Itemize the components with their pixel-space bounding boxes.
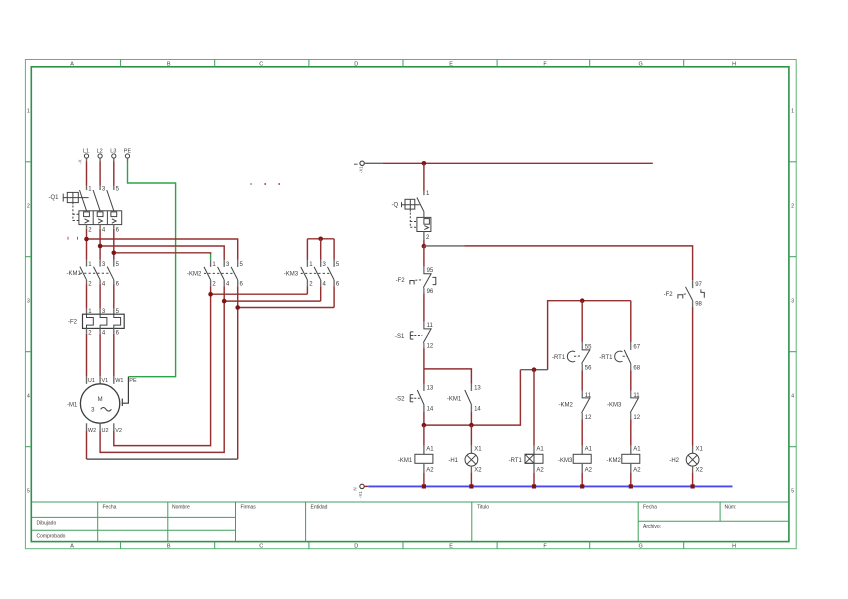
wire stub green at KM2 pole1 — [210, 254, 212, 260]
pin 14 — [423, 405, 425, 412]
frame column letters bottom — [70, 544, 736, 550]
timer semicircle — [567, 351, 575, 362]
svg-text:H: H — [732, 544, 736, 550]
Q1 thermal elements — [84, 212, 117, 217]
KM1 pins 2,4,6 — [87, 280, 114, 284]
wire RT1 coil drop — [533, 370, 535, 446]
wire junction to F2 97 (gray lead) — [424, 245, 465, 247]
blade — [686, 287, 693, 301]
svg-text:A1: A1 — [426, 447, 434, 453]
pin 13 — [470, 384, 472, 391]
start button S2 — [395, 384, 434, 412]
svg-text:A: A — [70, 61, 74, 67]
thermal overload relay F2 — [68, 309, 124, 337]
junction dot below Q — [422, 244, 427, 249]
pin 14 — [470, 405, 472, 412]
pin 55 — [582, 342, 589, 350]
svg-text:-RT1: -RT1 — [509, 458, 523, 464]
svg-text:-RT1: -RT1 — [552, 355, 566, 361]
svg-text:13: 13 — [474, 386, 481, 392]
Q pin 1 — [423, 191, 425, 196]
motor M1 — [67, 384, 120, 423]
blade — [582, 349, 591, 363]
svg-text:-KM3: -KM3 — [284, 271, 299, 277]
Q1 pins 1,3,5 — [87, 186, 114, 191]
svg-text:A1: A1 — [536, 447, 544, 453]
svg-text:L1: L1 — [83, 149, 89, 155]
thermal symbol — [678, 295, 683, 299]
svg-text:A2: A2 — [585, 467, 593, 473]
contactor KM3 (star) — [284, 237, 340, 288]
svg-text:-KM3: -KM3 — [558, 458, 573, 464]
lamp H1 — [448, 425, 482, 486]
svg-text:D: D — [354, 61, 358, 67]
svg-text:X1: X1 — [696, 447, 704, 453]
svg-text:2: 2 — [791, 203, 794, 209]
svg-text:L2: L2 — [97, 149, 103, 155]
svg-text:-KM1: -KM1 — [398, 458, 413, 464]
timer relay coil RT1 — [509, 446, 545, 487]
svg-text:5: 5 — [27, 488, 30, 494]
svg-text:12: 12 — [633, 415, 640, 421]
terminal strip -X (L1 L2 L3 PE) — [78, 154, 130, 164]
wire Q to junction — [423, 239, 425, 246]
wire KM1 to F2 pole3 — [113, 284, 115, 309]
Q1 magnetic elements — [85, 219, 117, 223]
svg-text:-X1: -X1 — [359, 166, 364, 174]
svg-text:55: 55 — [585, 345, 592, 351]
trip hook — [432, 277, 435, 284]
svg-text:-X1: -X1 — [358, 491, 363, 499]
Q trip unit box — [417, 217, 431, 231]
thermal symbol — [410, 281, 414, 285]
svg-text:1: 1 — [791, 109, 794, 115]
KM1 blades — [80, 267, 114, 280]
svg-text:3: 3 — [27, 298, 30, 304]
svg-text:11: 11 — [585, 393, 592, 399]
wire motor U2 to KM2 pole3 bottom — [100, 301, 224, 452]
thermal contact F2 95-96 — [396, 267, 436, 295]
wire KM2 pole3 stub — [223, 286, 225, 301]
KM3 blades — [301, 267, 334, 280]
wire KM2 pole5 bottom vertical — [237, 308, 239, 460]
svg-text:C: C — [259, 61, 263, 67]
svg-text:-Q: -Q — [392, 202, 399, 208]
motor terminal pins top — [87, 376, 114, 383]
svg-text:1: 1 — [27, 109, 30, 115]
KM2 linkage (dashed) — [204, 272, 235, 274]
KM1 linkage (dashed) — [80, 272, 111, 274]
coil KM1 — [398, 425, 434, 486]
wire KM3 12 to KM2 coil — [630, 419, 632, 446]
coil KM2 — [607, 446, 642, 487]
svg-text:G: G — [639, 544, 643, 550]
contactor KM1 — [67, 260, 120, 288]
Q pin 2 — [423, 232, 425, 240]
wire RT1 56 to KM2 11 — [581, 371, 583, 391]
junction dot KM2 pole3 — [222, 299, 227, 304]
wire phase branch to KM2 pole1 — [114, 253, 211, 254]
junction dot KM2 pole5 — [235, 305, 240, 310]
wire F2 96 to S1 — [423, 293, 425, 321]
terminal -X neutral — [353, 484, 365, 498]
svg-text:H: H — [732, 61, 736, 67]
svg-text:12: 12 — [427, 343, 434, 349]
svg-text:Archivo:: Archivo: — [643, 524, 661, 530]
svg-text:B: B — [167, 61, 171, 67]
pin 95 — [424, 267, 431, 274]
svg-text:A: A — [70, 544, 74, 550]
svg-text:U1: U1 — [88, 378, 95, 384]
KM3 star bar drops — [306, 239, 308, 260]
svg-text:E: E — [449, 544, 453, 550]
svg-text:Comprobado: Comprobado — [37, 534, 66, 540]
wire S2 to junction row — [423, 411, 425, 425]
wire L2 to Q1 — [99, 162, 101, 186]
thermal contact F2 97-98 — [664, 280, 705, 307]
KM3 pins 1,3,5 — [307, 260, 334, 267]
svg-text:V1: V1 — [102, 378, 109, 384]
junction dot KM2 pole1 — [208, 292, 213, 297]
svg-text:12: 12 — [585, 415, 592, 421]
F2 heater elements — [87, 314, 121, 328]
motor breaker Q1 — [48, 186, 121, 234]
svg-text:-S2: -S2 — [395, 396, 405, 402]
wire drop to RT1 55 — [581, 301, 583, 342]
svg-text:-F2: -F2 — [396, 278, 406, 284]
svg-text:95: 95 — [427, 268, 434, 274]
pin 12 — [581, 413, 583, 419]
wire F2 98 to H2 — [692, 307, 694, 446]
wire motor W2 run (black) — [87, 458, 238, 460]
svg-text:-KM1: -KM1 — [447, 396, 462, 402]
wire KM2 12 to KM3 coil — [581, 419, 583, 446]
svg-text:Dibujado: Dibujado — [37, 521, 57, 527]
wire motor V2 to KM2 pole1 bottom — [114, 294, 211, 445]
svg-text:E: E — [449, 61, 453, 67]
timed contact RT1 55-56 — [552, 342, 592, 372]
svg-text:M: M — [98, 397, 103, 403]
svg-text:-H2: -H2 — [669, 458, 679, 464]
wire control top rail — [383, 162, 653, 164]
wire riser to upper rail — [548, 301, 631, 370]
svg-text:Entidad: Entidad — [311, 505, 328, 511]
wire PE (green) to motor — [128, 162, 176, 377]
svg-text:Fecha: Fecha — [643, 505, 657, 511]
svg-text:67: 67 — [633, 345, 640, 351]
svg-text:PE: PE — [124, 149, 132, 155]
wire Q1 pole3 down to KM1 — [113, 229, 115, 260]
svg-text:-KM2: -KM2 — [558, 403, 573, 409]
wire KM3 pole3 stub down — [320, 286, 322, 301]
wire KM2-KM3 link row2 — [224, 300, 321, 302]
neutral connection squares — [422, 484, 695, 488]
wire F2 to motor V1 — [99, 334, 101, 377]
breaker Q (control) — [392, 191, 431, 241]
svg-text:98: 98 — [695, 302, 702, 308]
junction dot RT1 feed — [532, 367, 537, 372]
svg-text:-S1: -S1 — [395, 334, 405, 340]
blade — [423, 273, 431, 288]
Q magnetic element — [424, 226, 428, 230]
wire gray link to RT1 riser — [520, 369, 547, 371]
wire F2 to motor W1 — [113, 334, 115, 377]
Q thermal element — [424, 219, 430, 225]
svg-text:-KM3: -KM3 — [607, 403, 622, 409]
Q1 blades — [80, 190, 114, 211]
svg-text:Titulo: Titulo — [477, 505, 489, 511]
KM2 pins 2,4,6 — [211, 280, 238, 286]
svg-text:-KM1: -KM1 — [67, 271, 82, 277]
blade — [417, 390, 424, 405]
timed contact RT1 67-68 — [599, 342, 640, 372]
F2 box — [83, 314, 125, 328]
wire L3 to Q1 — [113, 162, 115, 186]
pin 56 — [581, 364, 583, 371]
frame column ticks top — [121, 60, 684, 67]
KM2 blades — [204, 267, 238, 280]
svg-text:X2: X2 — [474, 467, 482, 473]
svg-text:X2: X2 — [696, 467, 704, 473]
frame column letters top — [70, 61, 736, 67]
svg-text:Fecha: Fecha — [103, 505, 117, 511]
wire KM2 pole5 stub — [237, 286, 239, 307]
pin 11 — [631, 391, 638, 398]
terminal -X control phase — [354, 161, 364, 173]
junction dot phase L1 — [84, 237, 89, 242]
KM3 star bar — [307, 238, 334, 240]
title block labels — [37, 505, 737, 540]
svg-text:N: N — [353, 487, 358, 490]
svg-text:Firmas: Firmas — [241, 505, 257, 511]
frame row ticks left — [25, 162, 31, 447]
frame row numbers left — [27, 109, 30, 495]
wire KM1 to F2 pole2 — [99, 284, 101, 309]
junction dot phase L3 — [112, 251, 117, 256]
stop button S1 — [395, 321, 434, 349]
svg-text:-KM2: -KM2 — [607, 458, 622, 464]
svg-text:G: G — [639, 61, 643, 67]
wire KM2-KM3 link row3 — [238, 307, 334, 309]
motor terminal labels W2 U2 V2 — [88, 428, 122, 434]
svg-text:-F2: -F2 — [68, 319, 78, 325]
pin 12 — [630, 413, 632, 419]
wire phase branch to KM2 pole5 — [87, 239, 238, 260]
pin 13 — [423, 384, 425, 391]
blade — [582, 397, 591, 413]
blade — [630, 397, 639, 413]
title block grid — [31, 502, 789, 542]
contactor KM2 — [187, 260, 244, 288]
svg-text:-Q1: -Q1 — [48, 195, 59, 201]
wire control top rail (gray lead) — [364, 162, 382, 164]
svg-text:56: 56 — [585, 366, 592, 372]
svg-text:U2: U2 — [102, 428, 109, 434]
drawing frame outer border — [25, 60, 796, 549]
trip hook — [701, 289, 704, 297]
pin 67 — [630, 342, 632, 350]
wire rail to Q — [423, 163, 425, 190]
frame row ticks right — [789, 162, 796, 447]
wire KM2 pole1 stub — [210, 286, 212, 294]
wire neutral rail (blue) — [368, 485, 732, 487]
svg-text:A2: A2 — [536, 467, 544, 473]
junction dot KM1 aux bottom — [469, 423, 474, 428]
svg-text:A1: A1 — [585, 447, 593, 453]
stray mark group — [68, 183, 280, 240]
pin 11 — [582, 391, 589, 398]
junction dot top rail — [422, 161, 427, 166]
svg-text:Núm:: Núm: — [725, 505, 737, 511]
KM3 star junction dot — [318, 237, 323, 242]
Q blade — [417, 198, 424, 212]
wire phase branch to KM2 pole3 — [100, 246, 224, 260]
blade — [465, 390, 472, 405]
wire neutral stub — [364, 485, 368, 487]
svg-text:V2: V2 — [115, 428, 122, 434]
wire motor W2 vertical — [86, 431, 88, 460]
svg-text:D: D — [354, 544, 358, 550]
pin 98 — [692, 300, 694, 307]
push actuator — [410, 395, 413, 402]
pin 96 — [423, 288, 425, 294]
Q manual actuator — [401, 199, 420, 211]
blade — [624, 350, 631, 364]
frame column ticks bottom — [121, 542, 684, 549]
svg-text:14: 14 — [474, 406, 481, 412]
svg-text:97: 97 — [695, 282, 702, 288]
frame row numbers right — [791, 109, 794, 495]
pin 97 — [692, 280, 694, 288]
terminal pins — [87, 158, 128, 161]
coil KM3 — [558, 446, 593, 487]
svg-text:PE: PE — [129, 378, 137, 384]
svg-text:C: C — [259, 544, 263, 550]
wire KM2-KM3 link row1 — [211, 293, 308, 295]
wire junction to F2 97 (red) — [465, 246, 693, 280]
motor terminal pins bottom — [87, 423, 114, 430]
svg-text:4: 4 — [791, 393, 794, 399]
Q1 manual actuator — [63, 192, 88, 204]
interlock contact KM3 11-12 — [607, 391, 641, 421]
svg-text:96: 96 — [427, 289, 434, 295]
Q mechanical link (dashed) — [410, 213, 417, 228]
wire drop to RT1 67 — [630, 301, 632, 342]
svg-text:-KM2: -KM2 — [187, 271, 202, 277]
pin 68 — [630, 364, 632, 371]
svg-text:68: 68 — [633, 366, 640, 372]
wire L1 to Q1 — [86, 162, 88, 186]
svg-text:L3: L3 — [110, 149, 116, 155]
svg-text:Nombre: Nombre — [172, 505, 190, 511]
junction dot upper rail — [580, 298, 585, 303]
wire KM1 to F2 pole1 — [86, 284, 88, 309]
interlock contact KM2 11-12 — [558, 391, 592, 421]
motor PE terminal mark — [121, 399, 123, 407]
KM3 linkage (dashed) — [301, 272, 331, 274]
wire KM3 pole5 stub down — [333, 286, 335, 307]
pin 11 — [424, 321, 431, 329]
svg-text:W2: W2 — [88, 428, 96, 434]
wire KM3 pole1 stub down — [306, 286, 308, 294]
Q1 trip unit box — [79, 211, 122, 225]
junction dot phase L2 — [98, 244, 103, 249]
junction dot S2 bottom — [422, 423, 427, 428]
drawing frame inner border — [31, 67, 789, 542]
push actuator — [410, 332, 413, 339]
svg-text:14: 14 — [427, 406, 434, 412]
svg-text:3: 3 — [791, 298, 794, 304]
motor terminal labels U1 V1 W1 PE — [88, 378, 137, 384]
pin 12 — [423, 343, 425, 348]
wire RT1 68 to KM3 11 — [630, 371, 632, 391]
lamp H2 — [669, 446, 703, 487]
timer semicircle — [615, 351, 623, 362]
svg-text:4: 4 — [27, 393, 30, 399]
svg-text:-F2: -F2 — [664, 292, 674, 298]
auxiliary contact KM1 13-14 — [447, 384, 482, 412]
wire Q1 pole2 down to KM1 — [99, 229, 101, 260]
Q1 mechanical link (dashed) — [73, 206, 79, 222]
svg-text:2: 2 — [27, 203, 30, 209]
KM3 pins 2,4,6 — [307, 280, 334, 286]
svg-text:13: 13 — [427, 386, 434, 392]
svg-text:X1: X1 — [474, 447, 482, 453]
svg-text:-M1: -M1 — [67, 402, 78, 408]
svg-text:A2: A2 — [633, 467, 641, 473]
svg-text:-RT1: -RT1 — [599, 355, 613, 361]
F2 pins 1,3,5 — [87, 309, 114, 315]
svg-text:A1: A1 — [633, 447, 641, 453]
svg-text:11: 11 — [427, 323, 434, 329]
wire S1 to S2 — [423, 348, 425, 384]
motor PE lead (black) — [123, 377, 129, 404]
wire branch to KM1 aux — [424, 369, 472, 384]
wire Q1 pole1 down to KM1 — [86, 229, 88, 260]
Q1 pins 2,4,6 — [87, 225, 114, 229]
wire junction row — [424, 370, 521, 425]
svg-text:-H1: -H1 — [448, 458, 458, 464]
KM2 pins 1,3,5 — [211, 260, 238, 267]
blade — [423, 328, 431, 343]
svg-text:B: B — [167, 544, 171, 550]
svg-text:11: 11 — [633, 393, 640, 399]
svg-text:A2: A2 — [426, 467, 434, 473]
wire F2 to motor U1 — [86, 334, 88, 377]
KM1 pins 1,3,5 — [87, 260, 114, 267]
svg-text:W1: W1 — [115, 378, 123, 384]
wire junction down to F2 95 — [423, 246, 425, 267]
F2 pins 2,4,6 — [87, 328, 114, 333]
svg-text:5: 5 — [791, 488, 794, 494]
svg-text:-X: -X — [78, 160, 83, 165]
wire KM1 aux to junction row — [470, 411, 472, 425]
